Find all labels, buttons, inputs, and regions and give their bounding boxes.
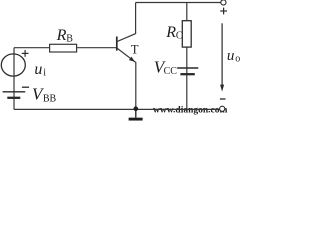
arrow uo — [220, 23, 224, 91]
svg-text:i: i — [43, 67, 46, 78]
wire: top rail — [136, 2, 221, 4]
transistor T emitter lead — [117, 48, 136, 109]
node: output + terminal — [221, 0, 226, 5]
wire: bottom rail — [14, 108, 220, 110]
svg-text:BB: BB — [43, 94, 57, 105]
svg-text:u: u — [34, 61, 42, 78]
svg-text:T: T — [131, 42, 139, 56]
wire: rail to RC — [186, 3, 188, 21]
label + (output) — [220, 8, 227, 15]
transistor T base bar — [116, 37, 118, 51]
node: emitter junction dot — [134, 106, 139, 111]
svg-text:B: B — [66, 33, 73, 44]
battery VCC long plate — [177, 67, 198, 69]
svg-text:C: C — [176, 30, 183, 41]
node: output - terminal — [220, 106, 225, 111]
svg-text:R: R — [56, 27, 67, 44]
wire: RC to VCC battery — [186, 47, 188, 109]
transistor T collector lead — [117, 3, 136, 42]
label + (source) — [22, 50, 29, 57]
battery VCC short plate — [180, 73, 194, 75]
wire: top-left horizontal from source corner to RB — [14, 47, 50, 49]
resistor RC — [182, 21, 191, 47]
svg-text:www.diangon.com: www.diangon.com — [153, 106, 228, 116]
ground — [129, 110, 143, 119]
svg-text:R: R — [165, 24, 176, 41]
battery VBB short plate — [7, 97, 20, 99]
label - (output) — [220, 98, 226, 100]
wire: left vertical (source branch) — [13, 48, 15, 110]
source ui circle — [1, 54, 25, 76]
label - (source) — [22, 86, 29, 88]
transistor T emitter arrow — [129, 57, 135, 62]
battery VBB long plate — [3, 91, 26, 93]
svg-text:u: u — [227, 48, 235, 64]
svg-text:CC: CC — [164, 66, 178, 77]
resistor RB — [50, 44, 77, 52]
svg-text:o: o — [235, 54, 240, 65]
wire: RB to base — [77, 47, 117, 49]
